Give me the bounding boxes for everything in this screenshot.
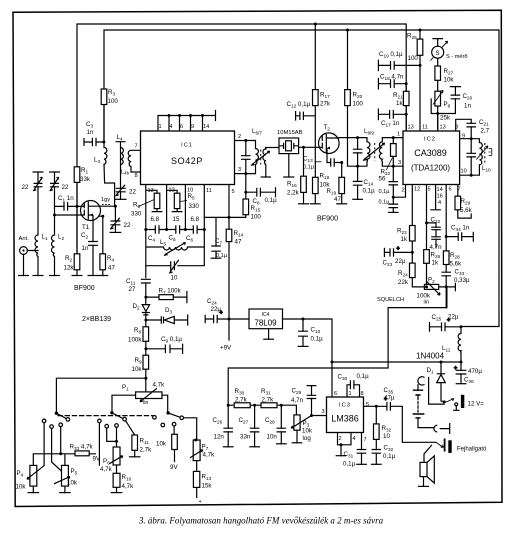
- svg-text:P8: P8: [444, 101, 451, 108]
- svg-text:R33 4,7k: R33 4,7k: [70, 444, 94, 451]
- resistor R16 2,2k: [301, 176, 307, 192]
- svg-text:10n: 10n: [267, 434, 278, 441]
- svg-text:7: 7: [364, 437, 367, 443]
- svg-text:1N4004: 1N4004: [416, 352, 445, 361]
- svg-text:C11: C11: [126, 278, 136, 285]
- svg-text:C6: C6: [186, 235, 193, 242]
- svg-text:15: 15: [173, 216, 180, 223]
- wire: IC2 pin13b stem: [437, 114, 439, 132]
- wire: L11 branch: [460, 327, 462, 363]
- resistor R14 47: [226, 229, 232, 241]
- svg-text:C18 4,7n: C18 4,7n: [380, 74, 404, 81]
- wire: IC2 pin 6 / R28 / C33 column: [445, 185, 447, 308]
- wire: speaker lead: [424, 445, 432, 486]
- trimmer capacitor 22p (T1 drain): [110, 218, 120, 229]
- resistor R18 10k: [313, 177, 319, 193]
- svg-text:R2: R2: [65, 255, 72, 262]
- svg-text:R11: R11: [140, 438, 150, 445]
- core dashes L6/7: [260, 150, 262, 165]
- ground (C10): [298, 345, 309, 347]
- LM386 box: [327, 397, 364, 433]
- svg-text:27k: 27k: [320, 101, 331, 108]
- svg-text:R19: R19: [327, 188, 337, 195]
- capacitor C34 1n: [458, 232, 462, 241]
- tuning arrow L8/9: [363, 143, 385, 160]
- resistor R12 10k: [172, 434, 178, 449]
- resistor R7 100k: [159, 295, 173, 300]
- svg-text:3: 3: [238, 167, 241, 173]
- inductor L4 with top bar: [116, 142, 126, 165]
- svg-text:10k: 10k: [444, 77, 455, 84]
- svg-text:10k: 10k: [302, 428, 313, 435]
- svg-text:lin: lin: [143, 400, 148, 406]
- svg-text:C29: C29: [292, 388, 302, 395]
- svg-text:R21: R21: [393, 92, 403, 99]
- wire: LM386 pins 1/8 with C30: [347, 385, 360, 397]
- capacitor C25 22u (polarized): [442, 322, 446, 331]
- svg-text:C27: C27: [239, 417, 249, 424]
- svg-text:100: 100: [251, 214, 262, 221]
- svg-text:13: 13: [148, 188, 154, 194]
- svg-text:C20: C20: [463, 93, 473, 100]
- resistor R13 15k: [193, 471, 199, 487]
- svg-text:R13: R13: [202, 474, 212, 481]
- battery plug: [434, 425, 437, 432]
- svg-text:C19 0,1µ: C19 0,1µ: [379, 51, 403, 58]
- inductor L3: [104, 142, 107, 164]
- wire: C17 row: [378, 109, 406, 119]
- wire: D1 branch: [441, 362, 444, 402]
- svg-text:C17 1n: C17 1n: [381, 120, 400, 127]
- wire: D3 leads: [146, 315, 188, 325]
- svg-text:C2: C2: [81, 232, 88, 239]
- svg-text:R5: R5: [188, 193, 195, 200]
- wire: IC1 bottom pin 12: [167, 185, 178, 230]
- wire: C25 leads: [430, 323, 462, 332]
- svg-text:9: 9: [191, 124, 194, 130]
- ground (drain trimmer): [110, 231, 122, 233]
- capacitor C23 22u (polarized): [390, 248, 394, 256]
- capacitor (pin9 tank): [466, 153, 476, 157]
- resistor R29 5,6k: [455, 196, 461, 210]
- svg-text:11: 11: [206, 188, 212, 194]
- svg-text:R7 100k: R7 100k: [159, 288, 182, 295]
- svg-text:1k: 1k: [432, 260, 439, 267]
- callout line R6: [139, 200, 155, 207]
- ground (C14): [352, 198, 363, 200]
- svg-text:C28: C28: [265, 417, 275, 424]
- potentiometer P1 4,7k lin: [136, 392, 162, 399]
- capacitor C18 4,7n: [391, 79, 395, 88]
- svg-text:SO42P: SO42P: [171, 156, 203, 166]
- svg-text:2,7k: 2,7k: [262, 397, 275, 404]
- resistor R3 100: [101, 89, 107, 105]
- wire: IC1 top pin rail: [158, 111, 216, 132]
- svg-text:12: 12: [414, 187, 420, 193]
- wire: top bus B (y=30) from R3 line corner to right-side drop down to C25 node: [104, 30, 499, 327]
- wire: IC1 bottom pin 13 to tank: [146, 185, 157, 230]
- svg-text:6: 6: [449, 187, 452, 193]
- ground (R10): [111, 492, 123, 494]
- junction dots: [314, 23, 317, 26]
- svg-text:7: 7: [458, 187, 461, 193]
- svg-text:R31: R31: [261, 388, 271, 395]
- terminal bar (R6): [152, 209, 163, 212]
- potentiometer P7 4,7k: [193, 440, 200, 461]
- wire: C23 leads: [384, 248, 412, 256]
- resistor R5 330: [174, 193, 180, 208]
- svg-text:C33: C33: [455, 269, 465, 276]
- diode D3 BB139: [161, 316, 174, 323]
- capacitor C29 4,7n: [307, 386, 317, 399]
- wire: crystal to L7: [266, 148, 279, 178]
- wire: varicap string C11-D2-D3-R8-C9-R9-P1: [145, 283, 147, 392]
- svg-text:P3: P3: [303, 420, 310, 427]
- svg-text:12k: 12k: [64, 265, 75, 272]
- wire: IC2 pin9/pin10 tank: [460, 139, 480, 176]
- wire: R17/R18 column: [314, 24, 316, 204]
- ground (R11): [129, 456, 141, 458]
- wire: T2 drain to L8/9 tank: [339, 137, 358, 139]
- wire: L6/7 tank frame: [235, 141, 266, 174]
- svg-text:R1: R1: [81, 167, 88, 174]
- wire: P8 wiper tie: [431, 99, 438, 114]
- wire: switch contact stubs: [44, 418, 197, 477]
- wire: battery dashes: [417, 398, 419, 413]
- svg-text:10k: 10k: [16, 484, 27, 491]
- wire: C18 row: [378, 79, 406, 89]
- potentiometer P5 10k: [62, 465, 69, 486]
- wire: P3 bottom: [296, 430, 298, 443]
- svg-text:14: 14: [203, 124, 209, 130]
- svg-text:+: +: [199, 499, 202, 505]
- transistor T1 BF900 dual-gate MOSFET: [81, 201, 101, 221]
- svg-text:log: log: [303, 435, 312, 442]
- wire: IC1 bottom pin 11: [203, 185, 205, 230]
- wire: L2 node to T1 gate 1: [55, 214, 83, 216]
- callout line R22: [386, 158, 392, 171]
- svg-text:C22: C22: [431, 217, 441, 224]
- svg-text:22: 22: [124, 222, 131, 229]
- wire: LM386 bottom pins 2,4 bracket to ground: [338, 433, 352, 456]
- crystal 10M15AB: [279, 138, 299, 154]
- svg-text:L8/9: L8/9: [364, 128, 374, 135]
- svg-text:C7: C7: [215, 238, 222, 245]
- battery cells: [413, 390, 425, 418]
- wire: T1 drain to trimmer and ground: [100, 206, 115, 232]
- svg-text:LM386: LM386: [331, 414, 359, 424]
- wire: C35 to headphone jack: [376, 406, 436, 442]
- wire: supply rail y=362: [332, 361, 461, 363]
- capacitor C2 1n: [88, 242, 98, 246]
- wire: R11 lead: [125, 420, 135, 436]
- svg-text:(TDA1200): (TDA1200): [411, 164, 450, 173]
- wire: antenna lead: [24, 251, 39, 276]
- wire: R29 bracket: [458, 185, 471, 219]
- svg-text:10: 10: [461, 169, 467, 175]
- capacitor C33 0,33u: [441, 272, 451, 276]
- wire: LM386 pin5 out, R32/C32: [364, 406, 377, 464]
- svg-text:10k: 10k: [156, 441, 167, 448]
- capacitor C5 15p: [176, 225, 180, 233]
- svg-text:0,1µ: 0,1µ: [303, 165, 315, 171]
- svg-text:L5: L5: [160, 239, 166, 246]
- svg-text:L1: L1: [42, 234, 48, 241]
- capacitor C9 0,1u: [165, 345, 170, 354]
- core dashes L8/9: [374, 143, 376, 161]
- svg-text:L6/7: L6/7: [252, 128, 262, 135]
- svg-text:0,33µ: 0,33µ: [454, 277, 470, 284]
- wire: IC2 pin 12 to R23,C23,R24: [412, 185, 424, 287]
- wire: C26 C27 C28 stems: [228, 405, 281, 447]
- wire: S-meter chain: [433, 39, 443, 131]
- callout line R5: [180, 201, 187, 202]
- svg-text:C24: C24: [207, 298, 217, 305]
- inductor L8: [367, 142, 370, 162]
- inductor L9: [379, 142, 382, 162]
- svg-text:R6: R6: [133, 202, 140, 209]
- ground (R19): [336, 203, 347, 205]
- ground (antenna): [18, 275, 29, 277]
- potentiometer P8 25k: [435, 91, 441, 106]
- capacitor C36 470u (polarized): [456, 370, 467, 374]
- capacitor C32 0,1u: [372, 450, 382, 454]
- wire: P1 feed and side leads to switch pivots: [112, 395, 168, 411]
- resistor R27 10k: [435, 66, 441, 80]
- wire: pin5 node to R15/C7: [204, 217, 229, 258]
- capacitor C4 6,8p: [155, 225, 159, 233]
- svg-text:IC2: IC2: [424, 137, 436, 143]
- potentiometer P4 10k: [30, 465, 37, 486]
- wire: C20 chain: [438, 87, 461, 114]
- svg-text:22µ: 22µ: [448, 314, 459, 321]
- wire: T1 source to C2 and ground: [92, 220, 94, 276]
- ground (L7): [261, 176, 271, 178]
- svg-text:C30: C30: [338, 374, 348, 381]
- battery clip top: [418, 377, 425, 385]
- svg-text:100: 100: [353, 101, 364, 108]
- svg-text:S - mérő: S - mérő: [446, 54, 467, 60]
- resistor R21 1k: [403, 91, 409, 105]
- svg-text:2: 2: [238, 134, 241, 140]
- svg-text:8: 8: [455, 125, 458, 131]
- resistor R32 10: [374, 424, 380, 440]
- capacitor C28 10n: [277, 428, 287, 432]
- headphone jack switch: [436, 442, 443, 447]
- svg-text:4,7k: 4,7k: [100, 466, 113, 473]
- wire: L2 column: [54, 187, 56, 276]
- svg-text:4: 4: [438, 200, 441, 206]
- svg-text:33n: 33n: [240, 434, 251, 441]
- svg-text:47µ: 47µ: [384, 395, 395, 402]
- wire: R20 column to tank bottom: [348, 30, 358, 166]
- svg-text:0,1µ: 0,1µ: [379, 200, 391, 206]
- wire: C29 stem and pin3 wire: [312, 386, 327, 416]
- svg-text:4,7k: 4,7k: [153, 382, 166, 389]
- wire: 12V jack contact: [454, 406, 459, 411]
- resistor R17 27k: [313, 90, 319, 106]
- wire: R11 ground: [134, 450, 136, 457]
- wire: C14 stem: [357, 166, 359, 199]
- svg-text:R17: R17: [320, 92, 330, 99]
- svg-text:T2: T2: [324, 124, 331, 131]
- inductor L5 (variable): [164, 247, 188, 250]
- terminal bar (R5): [172, 209, 183, 212]
- 12V jack: [445, 399, 454, 403]
- wire: R16 column: [303, 147, 305, 204]
- svg-text:1k: 1k: [396, 100, 403, 107]
- wire: T2 gate from crystal: [299, 146, 320, 148]
- wire: C3 leads: [84, 141, 104, 143]
- svg-text:14: 14: [437, 187, 443, 193]
- capacitor C6 6,8p: [193, 225, 197, 233]
- ground (C2): [88, 275, 99, 277]
- svg-text:D3: D3: [165, 307, 172, 314]
- resistor R10 4,7k: [113, 473, 120, 487]
- resistor R15 100: [243, 199, 249, 215]
- wire: pin3 node down to C8/R15: [229, 174, 276, 218]
- svg-text:R29: R29: [461, 198, 471, 205]
- svg-text:5,6k: 5,6k: [460, 207, 473, 214]
- trimmer capacitor 22p (L1 top): [33, 172, 44, 191]
- wire: R3/L3 line down to T1 drain: [104, 105, 115, 207]
- svg-text:IC3: IC3: [339, 403, 351, 409]
- svg-text:R23: R23: [397, 228, 407, 235]
- svg-text:0,1µ: 0,1µ: [383, 453, 396, 460]
- capacitor C19 0,1u: [391, 61, 395, 70]
- resistor R20 100: [345, 90, 351, 106]
- capacitor C22 4,7n (double): [431, 227, 441, 239]
- inductor L7: [263, 149, 266, 165]
- svg-text:C34 1n: C34 1n: [451, 225, 470, 232]
- svg-text:9V: 9V: [170, 464, 178, 471]
- IC2 CA3089 box: [403, 131, 460, 185]
- svg-text:6,8: 6,8: [151, 216, 160, 223]
- svg-text:10M15AB: 10M15AB: [277, 130, 303, 136]
- svg-text:C26: C26: [213, 417, 223, 424]
- ground (C27): [249, 446, 260, 448]
- IC4 78L09 box: [249, 309, 283, 329]
- ground (L2): [49, 275, 60, 277]
- wire: top bus A (y=24) with left drop to T1 gate node and right drop to IC2 pin 13: [77, 24, 406, 254]
- svg-text:5: 5: [232, 189, 235, 195]
- wire: L4b to IC1 pins 7/8: [131, 150, 141, 172]
- svg-text:10: 10: [383, 433, 390, 440]
- svg-text:0,1µ: 0,1µ: [265, 197, 278, 204]
- wire: headphone jack bar: [444, 439, 446, 450]
- wire: C36 branch: [460, 362, 462, 384]
- svg-text:13: 13: [408, 125, 414, 131]
- svg-text:7: 7: [135, 144, 138, 150]
- wire: tank row 1 segments: [146, 229, 205, 231]
- resistor R4 47: [100, 254, 106, 270]
- svg-text:22: 22: [62, 184, 69, 191]
- resistor R22 56: [391, 144, 397, 157]
- svg-text:470µ: 470µ: [468, 368, 482, 375]
- svg-text:C5: C5: [169, 235, 176, 242]
- diode D1 1N4004: [437, 374, 446, 383]
- capacitor C26 12n: [223, 428, 233, 432]
- svg-text:R18: R18: [320, 173, 330, 180]
- svg-text:2,7: 2,7: [481, 128, 490, 135]
- svg-text:1n: 1n: [82, 245, 89, 252]
- wire: tank verticals and rows 2,3: [146, 230, 205, 278]
- svg-text:R26: R26: [431, 252, 441, 259]
- svg-text:22k: 22k: [398, 279, 409, 286]
- svg-text:L2: L2: [58, 234, 64, 241]
- svg-text:P2: P2: [428, 277, 435, 284]
- svg-text:+: +: [397, 246, 400, 252]
- svg-text:L4b: L4b: [121, 170, 130, 176]
- svg-text:22µ: 22µ: [395, 258, 406, 265]
- svg-text:D1: D1: [427, 367, 434, 374]
- tuning slug L10: [489, 149, 492, 156]
- svg-text:C23: C23: [383, 260, 393, 267]
- svg-text:C1 1n: C1 1n: [58, 195, 74, 202]
- svg-text:C31: C31: [344, 451, 354, 458]
- svg-text:3. ábra. Folyamatosan hangolha: 3. ábra. Folyamatosan hangolható FM vevő…: [138, 516, 384, 526]
- svg-text:10: 10: [171, 275, 178, 282]
- svg-text:8: 8: [361, 391, 364, 397]
- svg-text:9V: 9V: [93, 456, 101, 463]
- svg-text:47: 47: [235, 239, 242, 246]
- capacitor C3 1n: [84, 138, 96, 146]
- resistor R2 12k: [74, 254, 80, 270]
- svg-text:3: 3: [322, 409, 325, 415]
- resistor R19 47: [339, 177, 345, 193]
- wire: pin2 decoupling chain: [393, 166, 405, 212]
- svg-text:C25: C25: [432, 314, 442, 321]
- svg-text:22: 22: [22, 184, 29, 191]
- wire: C9 leads: [146, 344, 183, 353]
- ground (C7): [211, 257, 222, 259]
- svg-text:C13: C13: [303, 156, 313, 163]
- svg-text:R15: R15: [251, 205, 261, 212]
- ground (R16): [298, 203, 309, 205]
- ground (crystal): [283, 176, 294, 178]
- svg-text:0,1µ: 0,1µ: [216, 253, 228, 259]
- svg-text:0,1µ: 0,1µ: [357, 373, 370, 380]
- wire: R22 column and IC2 pins 1,3: [393, 138, 403, 167]
- capacitor C7 0,1u: [211, 246, 221, 251]
- ground (C28): [276, 443, 287, 445]
- capacitor (pin3 bypass) 0,1u: [389, 182, 399, 185]
- wire: IC4 output to C10 node and down to supply rail: [269, 319, 332, 362]
- inductor L10: [479, 143, 482, 165]
- svg-text:12n: 12n: [214, 434, 225, 441]
- svg-text:0,1µ: 0,1µ: [379, 189, 391, 195]
- svg-text:9: 9: [462, 134, 465, 140]
- svg-text:1n: 1n: [87, 129, 94, 136]
- tuning arrow L6/7: [251, 151, 270, 165]
- svg-text:27: 27: [129, 286, 136, 293]
- speaker: [420, 462, 427, 476]
- wire: L1 column: [37, 187, 39, 276]
- svg-text:CA3089: CA3089: [414, 148, 447, 158]
- capacitor (pin2 bypass) 0,1u: [389, 204, 399, 208]
- svg-text:P6: P6: [103, 458, 110, 465]
- svg-text:R16: R16: [287, 181, 297, 188]
- capacitor C8 0,1u: [257, 188, 261, 197]
- svg-text:0,1µ: 0,1µ: [343, 461, 356, 468]
- antenna connector: [20, 247, 28, 255]
- potentiometer P3 10k log: [294, 415, 300, 430]
- svg-text:P4: P4: [17, 470, 24, 477]
- capacitor (L6 tank): [241, 156, 251, 160]
- svg-text:R9: R9: [135, 357, 142, 364]
- resistor R23 1k: [410, 226, 416, 242]
- wire: L8/9 tank frame: [358, 138, 394, 167]
